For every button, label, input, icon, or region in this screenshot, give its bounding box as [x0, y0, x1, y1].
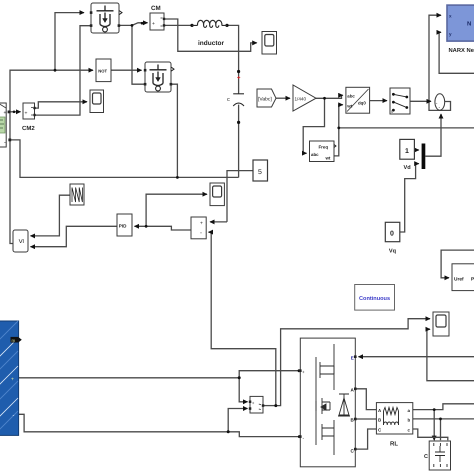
svg-text:N: N	[467, 21, 471, 28]
svg-text:+: +	[302, 370, 305, 375]
svg-text:inductor: inductor	[198, 40, 224, 47]
svg-text:x: x	[449, 14, 452, 19]
svg-text:1: 1	[405, 148, 409, 155]
svg-text:+: +	[252, 400, 255, 405]
svg-text:abc: abc	[347, 93, 355, 98]
svg-text:+: +	[25, 111, 28, 117]
svg-text:abc: abc	[311, 152, 319, 157]
svg-text:-: -	[13, 413, 15, 419]
svg-text:+: +	[200, 221, 203, 227]
svg-text:Continuous: Continuous	[359, 295, 390, 302]
svg-text:Uref: Uref	[454, 277, 464, 283]
svg-text:Vd: Vd	[404, 164, 412, 171]
svg-text:NOT: NOT	[98, 69, 107, 74]
svg-text:CM: CM	[151, 5, 161, 12]
svg-text:wt: wt	[325, 156, 331, 161]
svg-text:-: -	[200, 231, 202, 237]
svg-text:y: y	[449, 32, 452, 37]
svg-text:dq0: dq0	[358, 101, 366, 106]
svg-text:B: B	[378, 418, 381, 423]
svg-text:NARX Net: NARX Net	[449, 48, 474, 54]
svg-text:CM2: CM2	[22, 125, 35, 132]
svg-text:m: m	[12, 338, 16, 343]
svg-text:Vq: Vq	[389, 249, 397, 255]
svg-text:PID: PID	[119, 224, 127, 229]
svg-text:-: -	[4, 140, 6, 146]
svg-text:RL: RL	[390, 441, 398, 448]
svg-text:b: b	[408, 418, 411, 423]
svg-text:[Vabc]: [Vabc]	[258, 97, 272, 103]
svg-text:+: +	[4, 110, 7, 116]
svg-text:1/440: 1/440	[295, 96, 307, 101]
svg-text:0: 0	[390, 231, 394, 238]
svg-text:+: +	[152, 21, 155, 27]
svg-text:Freq: Freq	[319, 145, 329, 150]
svg-text:+: +	[11, 377, 14, 383]
svg-text:wt: wt	[346, 104, 352, 109]
svg-text:E: E	[351, 356, 354, 361]
svg-text:C: C	[424, 454, 428, 460]
svg-text:c: c	[227, 97, 230, 103]
svg-text:5: 5	[258, 169, 262, 176]
svg-text:≤: ≤	[16, 238, 25, 243]
